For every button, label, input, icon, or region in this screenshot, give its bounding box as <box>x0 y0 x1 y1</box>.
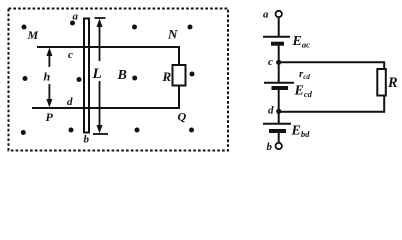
svg-text:Q: Q <box>178 110 187 124</box>
battery E_cd <box>264 83 294 88</box>
rail PQ (wire) <box>32 107 180 109</box>
node d junction <box>276 109 281 114</box>
svg-text:b: b <box>84 134 90 146</box>
height dimension h arrow <box>48 53 50 102</box>
wire top to resistor R (right) <box>383 61 385 70</box>
wire a to E_ac <box>278 17 280 36</box>
battery E_ac <box>263 37 290 44</box>
battery E_bd <box>263 124 291 131</box>
svg-text:M: M <box>27 28 39 42</box>
wire d to resistor branch <box>279 111 385 113</box>
svg-text:c: c <box>68 49 73 61</box>
svg-text:R: R <box>387 75 398 91</box>
svg-text:c: c <box>268 56 273 68</box>
svg-text:B: B <box>117 68 127 83</box>
magnetic field dots (B out of page) <box>21 21 195 136</box>
wire resistor to Q <box>178 86 180 110</box>
node c junction <box>276 60 281 65</box>
wire c to resistor branch <box>279 61 385 63</box>
length dimension L arrow <box>93 18 108 134</box>
svg-text:b: b <box>267 141 273 153</box>
svg-text:d: d <box>268 105 274 117</box>
terminal b <box>276 143 282 149</box>
wire E_bd to terminal b <box>278 131 280 143</box>
terminal a <box>276 11 282 17</box>
svg-text:h: h <box>44 70 51 84</box>
resistor R (left diagram) <box>173 65 186 86</box>
wire resistor R to bottom (right) <box>383 96 385 113</box>
field region boundary (dashed) <box>9 9 229 151</box>
svg-text:a: a <box>73 11 79 23</box>
svg-text:a: a <box>263 9 269 21</box>
wire d to E_bd <box>278 111 280 123</box>
svg-text:L: L <box>92 66 102 82</box>
wire E_ac to node c <box>278 44 280 63</box>
conducting rod ab <box>84 19 89 133</box>
resistor R (right) <box>377 69 386 96</box>
wire N to resistor R <box>178 47 180 66</box>
svg-text:N: N <box>167 27 178 42</box>
wire E_cd to node d <box>278 88 280 112</box>
rail MN (wire) <box>37 46 180 48</box>
svg-text:P: P <box>46 110 54 124</box>
wire c to E_cd <box>278 62 280 82</box>
svg-text:R: R <box>162 69 172 84</box>
svg-text:d: d <box>67 96 73 108</box>
